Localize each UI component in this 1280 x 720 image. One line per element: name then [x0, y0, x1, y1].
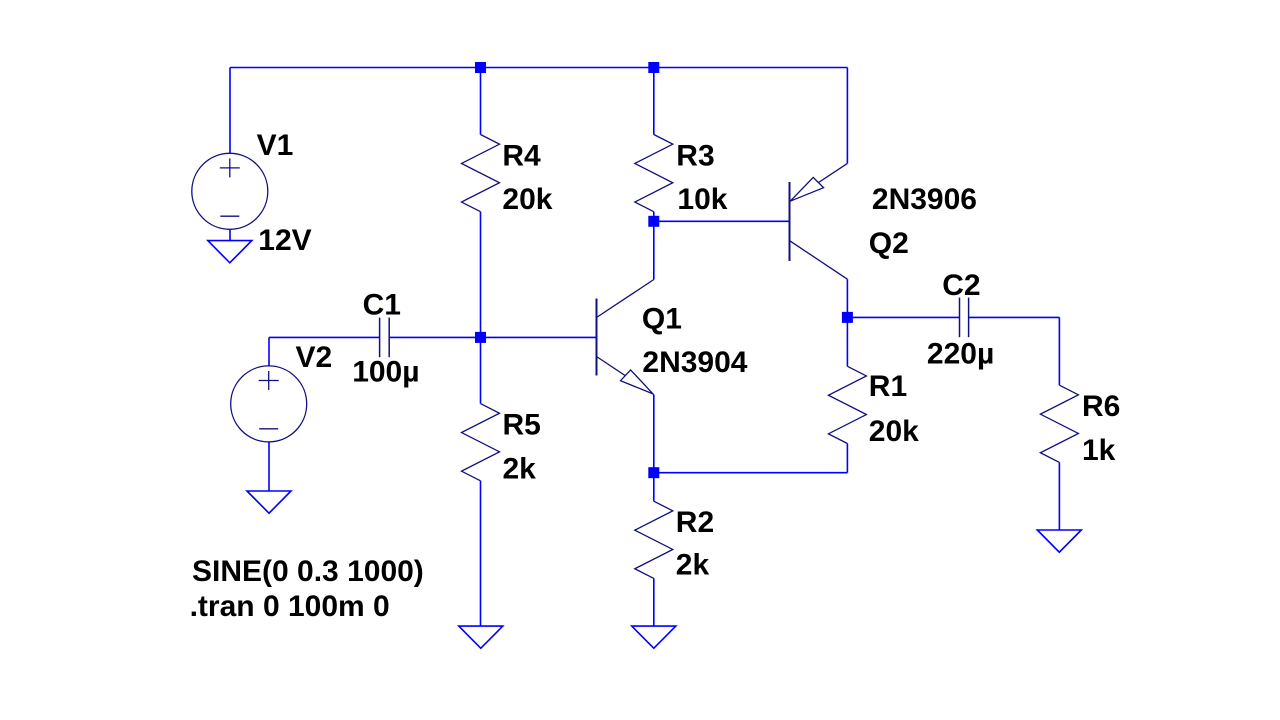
svg-text:C2: C2 [942, 269, 980, 302]
resistor R2 [635, 501, 673, 578]
svg-text:V2: V2 [296, 341, 333, 374]
svg-text:100µ: 100µ [352, 356, 419, 389]
svg-text:10k: 10k [677, 183, 727, 216]
resistor R6 [1040, 385, 1078, 462]
svg-text:Q2: Q2 [869, 227, 909, 260]
wire output node to C2 [847, 316, 959, 318]
wire V1 positive lead [229, 68, 231, 154]
wire R4 to base node [480, 212, 482, 338]
wire V2 to ground [268, 442, 270, 491]
junction Q1 collector node [648, 216, 659, 227]
ground below V2 [247, 491, 291, 513]
svg-text:1k: 1k [1082, 434, 1116, 467]
wire R2 to ground [653, 578, 655, 626]
wire down to V2 [268, 337, 270, 366]
wire top supply rail [230, 67, 847, 69]
svg-text:2k: 2k [676, 548, 710, 581]
wire V2 to C1 left plate [269, 336, 380, 338]
wire output node to R1 [846, 317, 848, 366]
svg-text:20k: 20k [869, 415, 919, 448]
voltage source V1 [192, 153, 268, 229]
svg-text:R4: R4 [502, 139, 541, 172]
svg-text:.tran 0 100m 0: .tran 0 100m 0 [190, 590, 390, 623]
wire down to R6 [1058, 317, 1060, 385]
transistor Q1 2N3904 npn [597, 280, 654, 395]
ground below R2 [632, 626, 676, 648]
transistor Q2 2N3906 pnp [790, 163, 848, 279]
wire emitter node to R1 bottom [654, 472, 848, 474]
junction top rail / R3 [648, 62, 659, 73]
wire R1 to emitter net [846, 444, 848, 473]
svg-text:R3: R3 [676, 139, 714, 172]
wire top rail to Q2 emitter [846, 68, 848, 164]
svg-text:2N3906: 2N3906 [872, 183, 977, 216]
svg-text:R5: R5 [503, 409, 541, 442]
wire R3 to Q1 collector node [653, 212, 655, 222]
svg-text:2k: 2k [503, 453, 537, 486]
wire Q1 collector lead [653, 221, 655, 279]
wire base node to R5 [480, 337, 482, 403]
wire V1 negative lead [229, 229, 231, 240]
capacitor C2 [960, 298, 969, 338]
svg-text:C1: C1 [363, 289, 401, 322]
wire top rail to R4 [480, 68, 482, 135]
junction emitter node [648, 467, 659, 478]
svg-text:12V: 12V [258, 224, 311, 257]
capacitor C1 [380, 318, 390, 358]
wire emitter node to R2 [653, 473, 655, 502]
wire top rail to R3 [653, 68, 655, 135]
svg-text:SINE(0 0.3 1000): SINE(0 0.3 1000) [192, 555, 424, 588]
wire C1 to base node [389, 336, 480, 338]
svg-text:220µ: 220µ [927, 338, 994, 371]
resistor R4 [462, 135, 500, 212]
junction top rail / R4 [475, 62, 486, 73]
ground below R5 [459, 626, 503, 648]
wire Q2 collector lead [846, 279, 848, 317]
ground below V1 [208, 241, 252, 263]
svg-text:R6: R6 [1082, 390, 1120, 423]
junction output node [842, 312, 853, 323]
svg-text:R2: R2 [676, 506, 714, 539]
voltage source V2 [231, 366, 307, 442]
svg-text:2N3904: 2N3904 [642, 346, 747, 379]
junction base node [475, 332, 486, 343]
wire Q1 collector node to Q2 base [654, 220, 790, 222]
wire C2 to R6 [969, 316, 1060, 318]
svg-text:20k: 20k [502, 183, 552, 216]
wire R6 to ground [1058, 462, 1060, 530]
svg-text:V1: V1 [257, 129, 294, 162]
wire R5 to ground [480, 481, 482, 626]
wire Q1 emitter lead [653, 395, 655, 473]
svg-text:Q1: Q1 [642, 302, 682, 335]
resistor R1 [828, 366, 866, 443]
ground below R6 [1037, 530, 1081, 552]
resistor R5 [462, 404, 500, 481]
svg-text:R1: R1 [869, 370, 907, 403]
resistor R3 [635, 135, 673, 212]
wire base node to Q1 base [481, 336, 597, 338]
